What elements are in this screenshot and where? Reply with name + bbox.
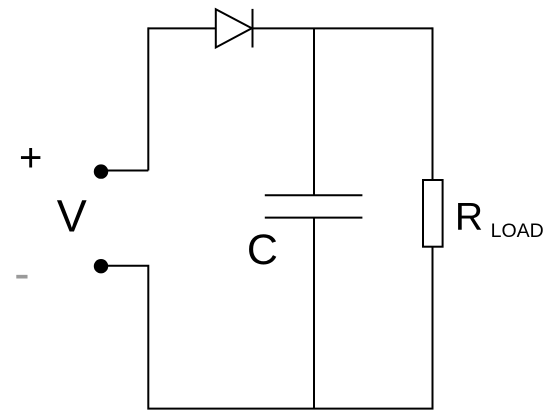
svg-text:R: R — [455, 195, 483, 238]
svg-text:+: + — [19, 136, 42, 180]
svg-text:C: C — [247, 226, 278, 274]
svg-text:LOAD: LOAD — [491, 220, 544, 242]
svg-text:-: - — [14, 247, 29, 299]
svg-text:V: V — [57, 191, 87, 242]
